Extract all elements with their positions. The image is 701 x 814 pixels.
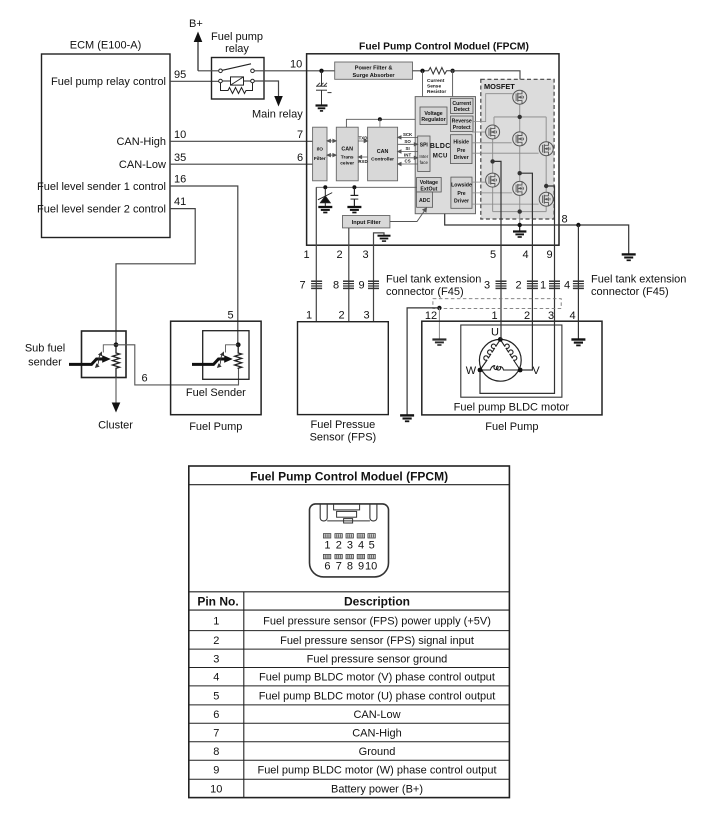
svg-text:7: 7 [299, 279, 305, 291]
fuel pump small box [171, 321, 262, 415]
svg-text:Driver: Driver [454, 198, 469, 204]
svg-text:Reverse: Reverse [452, 119, 472, 125]
connector F45 pin3 [496, 281, 507, 288]
wire fuel level sender 2 to sub fuel sender [116, 209, 195, 345]
connector top right notch [370, 504, 377, 521]
svg-text:95: 95 [174, 69, 186, 81]
svg-text:SO: SO [404, 139, 411, 144]
svg-text:9: 9 [358, 560, 364, 572]
svg-text:6: 6 [213, 709, 219, 721]
wire pin4 to V [523, 321, 533, 370]
svg-text:5: 5 [369, 540, 375, 552]
svg-text:9: 9 [546, 249, 552, 261]
svg-text:4: 4 [569, 310, 575, 322]
gate wire hiside to Q4 [472, 152, 539, 154]
wire pump pin12 to ground [438, 308, 440, 340]
svg-text:1: 1 [306, 310, 312, 322]
svg-text:Input Filter: Input Filter [352, 220, 382, 226]
node V [518, 368, 523, 373]
svg-text:1: 1 [303, 249, 309, 261]
svg-text:ceiver: ceiver [340, 160, 354, 166]
svg-text:Pre: Pre [457, 191, 465, 197]
svg-text:Voltage: Voltage [424, 111, 442, 117]
svg-text:6: 6 [141, 373, 147, 385]
svg-text:8: 8 [562, 214, 568, 226]
hiside pre driver block [451, 135, 473, 164]
svg-text:12: 12 [425, 310, 437, 322]
svg-text:Fuel Pressue: Fuel Pressue [310, 419, 375, 431]
B+ power arrow [189, 18, 203, 71]
ground symbol under MOSFET bus [513, 225, 526, 237]
svg-text:SCK: SCK [403, 132, 413, 137]
svg-text:Cluster: Cluster [98, 420, 133, 432]
pin table outer border [189, 466, 510, 798]
power filter and surge absorber block [335, 62, 413, 79]
cluster arrow [112, 403, 121, 413]
transistor Q6 [513, 181, 527, 195]
node capacitor [352, 185, 356, 189]
node zener [323, 185, 327, 189]
wire sub sender to fuel sender pin6 [116, 345, 239, 385]
svg-text:CAN-High: CAN-High [352, 728, 402, 740]
svg-text:2: 2 [336, 249, 342, 261]
svg-text:Fuel pressure sensor (FPS) sig: Fuel pressure sensor (FPS) signal input [280, 635, 474, 647]
svg-text:W: W [466, 365, 477, 377]
connector top left notch [320, 504, 327, 521]
lowside pre driver block [451, 177, 472, 208]
variable arrow sub sender [96, 352, 102, 367]
svg-text:Protect: Protect [453, 125, 471, 131]
sensor rail wire [316, 186, 416, 188]
CAN controller block [368, 127, 398, 181]
pin column divider [243, 592, 245, 798]
svg-text:ECM (E100-A): ECM (E100-A) [70, 40, 142, 52]
svg-text:face: face [420, 160, 429, 165]
svg-text:2: 2 [338, 310, 344, 322]
svg-text:6: 6 [297, 152, 303, 164]
svg-text:Ground: Ground [359, 746, 396, 758]
ground of pin12 [432, 340, 446, 346]
supply rail to CAN blocks [346, 119, 415, 127]
svg-text:Power Filter &: Power Filter & [355, 65, 393, 71]
wire B+ to relay switch [198, 70, 219, 72]
svg-text:Current: Current [452, 101, 471, 107]
pin2 wire input filter to FPS [348, 228, 350, 322]
TXD wire [358, 139, 367, 142]
fuel pump relay K1 [211, 31, 264, 99]
node bottom bus [518, 209, 522, 213]
svg-text:Inter: Inter [419, 154, 428, 159]
svg-text:Detect: Detect [454, 107, 470, 113]
stub rail to controller [379, 119, 381, 127]
svg-text:Filter: Filter [314, 156, 326, 162]
motor stator circle [479, 339, 521, 381]
main relay arrow [274, 96, 283, 107]
svg-text:1: 1 [324, 540, 330, 552]
svg-text:3: 3 [363, 310, 369, 322]
ECM box E100-A [42, 40, 171, 238]
svg-text:SI: SI [406, 146, 410, 151]
wiper wire sub sender [103, 345, 116, 353]
connector top center tabs [334, 504, 360, 510]
node B+ junction [319, 69, 323, 73]
pin3 wire to internal ground [374, 233, 385, 322]
MOSFET dashed block [481, 79, 554, 219]
input filter block [343, 216, 390, 228]
node after power filter [420, 69, 424, 73]
surge arrester to ground [316, 71, 332, 106]
svg-text:Fuel pressure sensor ground: Fuel pressure sensor ground [307, 653, 448, 665]
svg-text:Sense: Sense [427, 84, 441, 90]
svg-text:CAN: CAN [341, 147, 353, 153]
svg-text:Fuel Pump Control Moduel (FPCM: Fuel Pump Control Moduel (FPCM) [359, 42, 529, 53]
svg-text:Voltage: Voltage [420, 180, 438, 186]
voltage regulator block [420, 107, 447, 125]
gate wire reverse protect to Q1 [473, 94, 513, 122]
svg-text:3: 3 [548, 310, 554, 322]
node shield [437, 306, 441, 310]
node fuel sender [236, 342, 241, 347]
svg-text:Sensor (FPS): Sensor (FPS) [310, 432, 377, 444]
svg-text:TXD: TXD [359, 136, 368, 141]
svg-text:4: 4 [358, 540, 364, 552]
wire W phase to pin9 [546, 186, 554, 321]
svg-text:Fuel Pump: Fuel Pump [485, 421, 538, 433]
reverse protect block [451, 116, 474, 132]
svg-text:10: 10 [210, 783, 222, 795]
svg-text:Fuel level sender 2 control: Fuel level sender 2 control [37, 204, 166, 216]
svg-text:ADC: ADC [419, 198, 430, 204]
svg-text:4: 4 [522, 249, 528, 261]
ground of capacitor [347, 207, 361, 213]
svg-text:Sub fuel: Sub fuel [25, 343, 65, 355]
shield dashed box [433, 299, 561, 309]
svg-text:RXD: RXD [358, 159, 367, 164]
FPS box [298, 322, 389, 415]
header row top line [189, 591, 510, 593]
svg-text:CAN-Low: CAN-Low [119, 159, 166, 171]
svg-text:3: 3 [213, 653, 219, 665]
svg-text:Controller: Controller [371, 156, 394, 162]
transistor Q2 [486, 125, 500, 139]
wire to cluster [115, 378, 117, 405]
wire V phase to pin4 [520, 173, 533, 321]
svg-text:3: 3 [347, 540, 353, 552]
svg-text:16: 16 [174, 173, 186, 185]
connector body [310, 504, 389, 577]
resistor fuel sender [235, 345, 242, 369]
svg-text:MCU: MCU [433, 153, 448, 160]
svg-text:Battery power (B+): Battery power (B+) [331, 783, 423, 795]
svg-text:Fuel pump: Fuel pump [211, 31, 263, 43]
wire pin5 to U [500, 321, 502, 339]
voltage extout block [417, 178, 442, 193]
CAN transceiver block [336, 127, 358, 181]
svg-text:6: 6 [324, 560, 330, 572]
variable arrow fuel sender [218, 352, 224, 367]
pin1 wire inside FPCM to FPS [315, 187, 317, 321]
connector F45 pin2 [527, 281, 538, 288]
SPI interface block [418, 136, 430, 172]
transistor Q3 [513, 132, 527, 146]
svg-text:8: 8 [213, 746, 219, 758]
motor coil U-W [480, 339, 500, 370]
svg-text:Resistor: Resistor [427, 89, 446, 95]
connector F45 pin9 [368, 281, 379, 288]
svg-text:Surge Absorber: Surge Absorber [353, 73, 396, 79]
node W phase [544, 184, 548, 188]
svg-text:U: U [491, 327, 499, 339]
svg-text:MOSFET: MOSFET [484, 82, 515, 91]
svg-text:1: 1 [213, 615, 219, 627]
label current sense resistor [427, 78, 446, 95]
svg-text:Pin No.: Pin No. [197, 594, 238, 608]
transistor Q4 [539, 142, 553, 156]
svg-text:sender: sender [28, 357, 62, 369]
transistor Q5 [486, 173, 500, 187]
fuel pump box [422, 321, 602, 415]
svg-text:CAN-High: CAN-High [116, 136, 166, 148]
wire U phase to pin5 [493, 161, 501, 321]
connector pin slots row 2 [323, 554, 375, 558]
node M1 drain [518, 115, 522, 119]
svg-text:2: 2 [213, 635, 219, 647]
svg-text:2: 2 [515, 279, 521, 291]
RXD wire [358, 155, 367, 158]
gate wire lowside to Q5 [472, 181, 486, 183]
svg-text:9: 9 [213, 765, 219, 777]
zener diode TVS [318, 187, 332, 207]
svg-text:9: 9 [358, 279, 364, 291]
svg-text:4: 4 [213, 672, 219, 684]
node U phase [490, 159, 494, 163]
row lines [189, 631, 510, 780]
svg-text:3: 3 [362, 249, 368, 261]
node U [498, 337, 503, 342]
svg-text:4: 4 [564, 279, 570, 291]
gate wire lowside to Q6 [472, 192, 512, 194]
connector F45 pin4 ground wire [573, 281, 584, 288]
connector F45 pin1 [549, 281, 560, 288]
svg-text:Driver: Driver [454, 155, 469, 161]
connector shelf line [327, 520, 370, 522]
capacitor C1 [351, 187, 359, 207]
gate wire lowside to Q7 [472, 203, 539, 205]
connector F45 pin7 [311, 281, 322, 288]
sub sender input thick arrow [69, 355, 111, 364]
svg-text:Fuel Sender: Fuel Sender [186, 387, 246, 399]
svg-text:10: 10 [174, 129, 186, 141]
svg-text:ExtOut: ExtOut [420, 186, 437, 192]
svg-text:Lowside: Lowside [451, 183, 472, 189]
SPI bus SO [398, 143, 418, 146]
wire IO to transceiver arrow 1 [327, 139, 336, 142]
svg-text:I/O: I/O [317, 147, 324, 153]
svg-text:CAN-Low: CAN-Low [353, 709, 400, 721]
svg-text:1: 1 [491, 310, 497, 322]
svg-text:BLDC: BLDC [430, 143, 451, 150]
motor coil U-V [500, 339, 520, 370]
transistor Q1 reverse protect [513, 90, 527, 104]
wire power filter to current sense [413, 70, 429, 72]
wire node to current detect [452, 71, 454, 99]
wire pin9 to W [480, 321, 555, 393]
svg-text:connector (F45): connector (F45) [591, 286, 669, 298]
node pin8 to pump ground [576, 223, 580, 227]
BLDC motor inner box [461, 325, 562, 397]
svg-text:connector (F45): connector (F45) [386, 286, 464, 298]
svg-text:Fuel pump BLDC motor (W) phase: Fuel pump BLDC motor (W) phase control o… [257, 765, 496, 777]
svg-text:3: 3 [484, 279, 490, 291]
svg-text:Fuel pump relay control: Fuel pump relay control [51, 76, 166, 88]
svg-text:5: 5 [227, 310, 233, 322]
ADC block [417, 192, 433, 207]
svg-text:Fuel pump BLDC motor (V) phase: Fuel pump BLDC motor (V) phase control o… [259, 672, 495, 684]
ground of zener [318, 207, 332, 213]
svg-text:CAN: CAN [377, 149, 389, 155]
svg-text:Hiside: Hiside [453, 140, 469, 146]
svg-text:1: 1 [540, 279, 546, 291]
svg-text:Fuel Pump Control Moduel (FPCM: Fuel Pump Control Moduel (FPCM) [250, 469, 448, 483]
svg-text:Fuel tank extension: Fuel tank extension [386, 274, 481, 286]
fuel sender input thick arrow [192, 355, 233, 364]
ground of shield wire [400, 415, 414, 421]
svg-text:Pre: Pre [457, 148, 465, 154]
wire ECM95 to relay coil [170, 80, 219, 82]
SPI bus SCK [398, 136, 418, 139]
FPCM outer box [307, 54, 559, 245]
resistor sub sender [113, 345, 120, 378]
svg-text:Fuel pressure sensor (FPS) pow: Fuel pressure sensor (FPS) power upply (… [263, 615, 491, 627]
wire shield to ground [407, 308, 439, 416]
svg-text:INT: INT [404, 152, 411, 157]
svg-text:B+: B+ [189, 18, 203, 30]
sub fuel sender box [82, 331, 127, 378]
svg-text:7: 7 [336, 560, 342, 572]
motor coil W-V [480, 366, 520, 370]
svg-text:Main relay: Main relay [252, 109, 303, 121]
svg-text:5: 5 [490, 249, 496, 261]
svg-text:Trans: Trans [341, 154, 354, 160]
svg-text:5: 5 [213, 690, 219, 702]
svg-text:Fuel level sender 1 control: Fuel level sender 1 control [37, 181, 166, 193]
gate wire hiside to Q2 [472, 131, 486, 133]
SPI bus SI [398, 150, 418, 153]
node rail controller [378, 117, 382, 121]
svg-text:8: 8 [333, 279, 339, 291]
BLDC MCU outer block [415, 97, 475, 214]
svg-text:41: 41 [174, 196, 186, 208]
wire relay switch to FPCM pin10 [254, 70, 334, 72]
svg-text:Fuel pump BLDC motor: Fuel pump BLDC motor [454, 402, 570, 414]
wire IO to transceiver arrow 2 [327, 154, 336, 157]
SPI bus INT [398, 156, 418, 159]
wire pin8 branch to pump pin4 [577, 225, 579, 321]
current detect block [451, 98, 474, 113]
connector drawing [310, 504, 389, 577]
node sub sender [114, 342, 119, 347]
wire fuel level sender 1 to fuel sender pin5 [170, 186, 238, 345]
wire relay coil to main relay [254, 81, 278, 98]
ground of pin3 [378, 236, 391, 241]
fuel sender box [203, 331, 249, 380]
transistor Q7 [539, 192, 553, 206]
svg-text:2: 2 [336, 540, 342, 552]
svg-text:10: 10 [365, 560, 377, 572]
wire current sense to MOSFET M1 [451, 71, 521, 91]
svg-text:SPI: SPI [420, 143, 429, 149]
svg-text:Current: Current [427, 78, 445, 84]
svg-text:Fuel Pump: Fuel Pump [189, 421, 242, 433]
wire node to voltage regulator [422, 71, 424, 107]
svg-text:Fuel pump BLDC motor (U) phase: Fuel pump BLDC motor (U) phase control o… [259, 690, 496, 702]
wire input filter to ADC [390, 208, 427, 222]
connector F45 pin8 [343, 281, 354, 288]
bus center column [493, 104, 547, 225]
svg-text:10: 10 [290, 58, 302, 70]
svg-text:relay: relay [225, 43, 249, 55]
ground rail wire pin8 [445, 214, 629, 255]
connector pin slots row 1 [323, 534, 375, 538]
svg-text:2: 2 [524, 310, 530, 322]
wire CAN-Low ECM to FPCM pin6 [170, 163, 313, 165]
table title row line [189, 484, 510, 486]
svg-text:Regulator: Regulator [421, 117, 445, 123]
node ground rail center [518, 223, 522, 227]
svg-text:35: 35 [174, 152, 186, 164]
SPI bus CS [398, 162, 418, 165]
current sense resistor R-sense [429, 68, 451, 75]
svg-text:Fuel tank extension: Fuel tank extension [591, 274, 686, 286]
gate wire hiside to Q3 [472, 142, 512, 144]
svg-text:V: V [532, 365, 540, 377]
wire CAN-High ECM to FPCM pin7 [170, 140, 313, 142]
svg-text:CS: CS [405, 159, 411, 164]
node after current sense [450, 69, 454, 73]
node V phase [518, 171, 522, 175]
ground of surge arrester [316, 106, 328, 111]
ground of pump pin4 [571, 321, 585, 345]
wiper wire fuel sender [226, 345, 239, 353]
ground at right of rail [622, 254, 636, 260]
svg-text:7: 7 [297, 129, 303, 141]
header row bottom line [189, 609, 510, 611]
node W [478, 368, 483, 373]
svg-text:7: 7 [213, 728, 219, 740]
I/O filter block [313, 127, 327, 181]
svg-text:Description: Description [344, 594, 410, 608]
svg-text:8: 8 [347, 560, 353, 572]
